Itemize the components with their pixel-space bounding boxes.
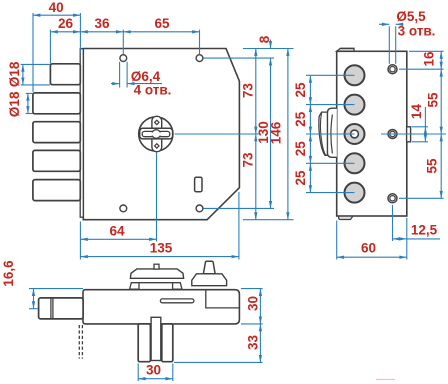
bolt circle 2 — [345, 95, 365, 115]
bolt circle 1 — [345, 65, 365, 85]
bottom bolt — [39, 298, 84, 319]
svg-text:3 отв.: 3 отв. — [398, 24, 436, 39]
deadbolt 2 — [33, 93, 80, 114]
bracket right plate — [162, 324, 173, 362]
svg-text:55: 55 — [425, 158, 440, 174]
svg-text:Ø18: Ø18 — [7, 61, 22, 87]
center line through hole 2 — [381, 133, 446, 135]
svg-text:73: 73 — [240, 152, 255, 168]
svg-text:135: 135 — [150, 241, 173, 256]
bottom body — [83, 290, 239, 324]
svg-text:16,6: 16,6 — [1, 260, 16, 287]
dimension 55 lower — [440, 134, 442, 198]
svg-text:16: 16 — [421, 51, 436, 67]
dimension 26 — [50, 31, 80, 33]
dimension dia 6,4 4 holes — [119, 62, 121, 88]
svg-text:25: 25 — [293, 141, 308, 157]
dimension 25 chain — [309, 75, 311, 104]
deadbolt 1 — [50, 64, 80, 85]
svg-text:64: 64 — [109, 223, 125, 238]
watermark remnant — [376, 379, 395, 380]
thumbturn base — [192, 274, 227, 286]
mounting hole bottom-left — [120, 205, 127, 212]
dimension 130 — [270, 58, 272, 208]
svg-text:25: 25 — [293, 170, 308, 186]
latch lever profile — [327, 108, 336, 157]
screw diamond top — [155, 120, 159, 124]
dome nub — [154, 264, 159, 269]
bottom faceplate tab — [339, 216, 353, 219]
keyhole center bulge — [152, 130, 161, 139]
cylinder circle 3 — [345, 124, 365, 144]
bolt circle 5 — [345, 183, 365, 203]
screw hole 2 — [388, 130, 397, 139]
bottom slot — [160, 299, 194, 303]
bracket left plate — [138, 324, 150, 362]
lock body outline — [83, 49, 239, 220]
bracket middle column — [151, 317, 161, 360]
key cylinder outer circle — [139, 117, 173, 151]
dimension 12,5 — [392, 205, 394, 241]
side body — [337, 51, 407, 216]
svg-text:Ø5,5: Ø5,5 — [396, 9, 426, 24]
dimension 40 — [33, 14, 80, 16]
deadbolt 5 — [33, 180, 80, 201]
svg-text:Ø18: Ø18 — [7, 91, 22, 117]
dimension 73 bottom — [255, 134, 257, 220]
hidden faceplate dashed lines — [78, 325, 80, 359]
svg-text:40: 40 — [49, 0, 64, 15]
dimension 33 — [259, 324, 261, 363]
dimension 36 — [80, 31, 123, 33]
cylinder band — [140, 128, 173, 139]
svg-text:55: 55 — [426, 92, 441, 108]
svg-text:25: 25 — [293, 111, 308, 127]
escutcheon dome — [130, 269, 183, 278]
dimension dia 5,5 3 holes — [388, 26, 390, 64]
svg-text:36: 36 — [94, 16, 110, 31]
screw hole 3 — [388, 194, 397, 203]
handle slot — [195, 177, 202, 191]
dimension 30 bottom — [138, 378, 173, 380]
deadbolt 4 — [33, 150, 80, 171]
escutcheon feet and band — [130, 283, 139, 290]
top faceplate tab — [337, 48, 354, 51]
dimension 73 top — [255, 49, 257, 135]
deadbolt 3 — [33, 122, 80, 143]
screw diamond bottom — [155, 144, 159, 148]
dimension 60 — [337, 256, 407, 258]
svg-text:8: 8 — [257, 35, 272, 43]
dimension 14 — [424, 107, 426, 127]
keyhole slot — [142, 131, 170, 136]
svg-text:30: 30 — [146, 363, 161, 378]
screw hole 1 — [388, 65, 397, 74]
svg-text:25: 25 — [293, 82, 308, 98]
dimension 64 — [80, 238, 156, 240]
dimension 135 — [80, 256, 239, 258]
thumbturn stem — [203, 261, 215, 274]
svg-text:146: 146 — [269, 121, 284, 144]
dimension dia 18 top bolt — [22, 64, 24, 85]
svg-text:33: 33 — [246, 335, 261, 351]
mounting hole top-left — [120, 55, 127, 62]
svg-text:12,5: 12,5 — [411, 223, 438, 238]
inner corner panel — [206, 290, 240, 308]
svg-text:4 отв.: 4 отв. — [134, 83, 172, 98]
bolt circle 4 — [345, 153, 365, 173]
mounting hole bottom-right — [196, 205, 203, 212]
dimension 8 — [270, 40, 272, 49]
dimension 65 — [123, 31, 199, 33]
dimension 16,6 — [33, 289, 35, 309]
svg-text:14: 14 — [409, 104, 424, 120]
svg-text:65: 65 — [154, 16, 170, 31]
dimension 55 upper — [440, 69, 442, 134]
cylinder lug capsule — [152, 116, 162, 151]
svg-text:26: 26 — [58, 16, 74, 31]
mounting hole top-right — [196, 55, 203, 62]
dimension 16 — [440, 51, 442, 69]
dimension 30 right — [259, 289, 261, 324]
dimension dia 18 second bolt — [27, 93, 29, 113]
svg-text:60: 60 — [361, 241, 376, 256]
svg-text:73: 73 — [240, 83, 255, 99]
faceplate front edge — [80, 49, 83, 218]
dimension 146 — [287, 49, 289, 220]
svg-text:30: 30 — [246, 296, 261, 311]
right edge tab — [407, 127, 411, 142]
